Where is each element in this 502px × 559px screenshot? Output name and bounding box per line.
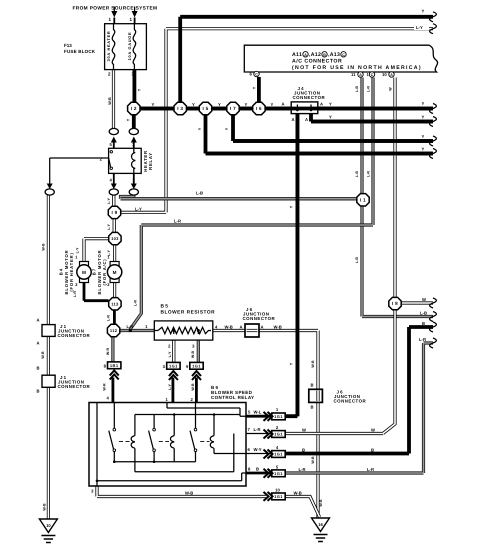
svg-text:10: 10: [382, 72, 387, 77]
svg-text:112: 112: [110, 328, 118, 333]
svg-text:,A12: ,A12: [309, 52, 321, 58]
svg-text:Y: Y: [329, 102, 332, 107]
svg-text:W-B: W-B: [311, 360, 315, 368]
svg-text:CONNECTOR: CONNECTOR: [58, 333, 91, 338]
svg-text:10: 10: [275, 488, 280, 493]
svg-text:W-B: W-B: [41, 243, 45, 251]
svg-text:HEATER: HEATER: [143, 150, 148, 172]
svg-text:Y: Y: [422, 101, 425, 106]
svg-text:A/C CONNECTOR: A/C CONNECTOR: [292, 59, 342, 65]
svg-text:CONNECTOR: CONNECTOR: [334, 399, 367, 404]
svg-text:W-B: W-B: [108, 97, 112, 105]
svg-text:A: A: [305, 117, 308, 122]
svg-text:W: W: [422, 297, 426, 302]
svg-text:W-B: W-B: [319, 499, 323, 507]
svg-text:16: 16: [318, 522, 323, 527]
svg-text:Y: Y: [192, 102, 195, 107]
svg-text:BLOWER MOTOR: BLOWER MOTOR: [97, 250, 102, 295]
svg-text:L-R: L-R: [299, 467, 306, 472]
svg-text:L-Y: L-Y: [76, 247, 80, 253]
svg-text:I 7: I 7: [230, 106, 236, 111]
svg-text:C: C: [371, 73, 374, 77]
svg-text:Y: Y: [329, 115, 332, 120]
svg-text:A: A: [359, 73, 362, 77]
svg-text:B: B: [422, 321, 425, 326]
svg-text:W-B: W-B: [191, 383, 195, 391]
svg-text:I 9: I 9: [111, 210, 117, 215]
svg-text:L-Y: L-Y: [135, 207, 142, 212]
svg-text:1G1: 1G1: [274, 471, 283, 476]
svg-text:L-Y: L-Y: [416, 25, 423, 30]
svg-text:Y: Y: [218, 102, 221, 107]
svg-text:I 2: I 2: [131, 106, 137, 111]
svg-text:L-R: L-R: [419, 337, 426, 342]
svg-text:113: 113: [111, 301, 119, 306]
svg-text:Y: Y: [152, 102, 155, 107]
svg-text:C: C: [255, 73, 258, 77]
svg-text:L-R: L-R: [367, 171, 371, 177]
svg-text:A: A: [261, 325, 264, 330]
svg-text:30A HEATER: 30A HEATER: [106, 31, 111, 62]
svg-text:B: B: [323, 53, 326, 57]
svg-text:103: 103: [111, 236, 119, 241]
svg-text:,A13: ,A13: [328, 52, 340, 58]
svg-text:B: B: [371, 448, 374, 453]
svg-text:C: C: [342, 53, 345, 57]
svg-text:L-Y: L-Y: [168, 384, 172, 390]
svg-text:A: A: [320, 102, 323, 107]
svg-text:L-R: L-R: [367, 467, 374, 472]
svg-text:B 4: B 4: [59, 268, 64, 275]
svg-text:I 8: I 8: [392, 301, 398, 306]
svg-text:L-Y: L-Y: [107, 224, 111, 230]
svg-text:A: A: [304, 53, 307, 57]
svg-text:I 1: I 1: [360, 197, 366, 202]
svg-text:L-Y: L-Y: [107, 198, 111, 204]
svg-text:L-R: L-R: [107, 315, 111, 321]
svg-text:Y: Y: [138, 88, 142, 91]
svg-text:A: A: [36, 341, 39, 346]
svg-text:L-R: L-R: [367, 86, 371, 92]
svg-text:B: B: [36, 389, 39, 394]
svg-text:I 5: I 5: [202, 106, 208, 111]
svg-text:L-B: L-B: [355, 171, 359, 177]
svg-text:Y: Y: [127, 118, 131, 121]
svg-text:1G1: 1G1: [274, 414, 283, 419]
svg-text:Y: Y: [253, 86, 257, 89]
svg-text:M: M: [82, 270, 86, 275]
svg-text:L-B: L-B: [355, 86, 359, 92]
svg-text:W-B: W-B: [311, 456, 315, 464]
svg-text:I 6: I 6: [256, 106, 262, 111]
svg-text:CONNECTOR: CONNECTOR: [293, 95, 326, 100]
svg-text:CONNECTOR: CONNECTOR: [243, 316, 276, 321]
svg-text:A: A: [282, 102, 285, 107]
svg-text:L-Y: L-Y: [168, 351, 172, 357]
svg-text:A: A: [390, 73, 393, 77]
svg-text:Y: Y: [289, 362, 293, 365]
svg-text:A: A: [36, 318, 39, 323]
svg-text:L-R: L-R: [134, 300, 138, 306]
svg-text:1B1: 1B1: [110, 363, 119, 368]
svg-text:B: B: [310, 383, 313, 388]
svg-text:W-B: W-B: [294, 491, 302, 496]
svg-text:1G1: 1G1: [169, 364, 178, 369]
svg-text:W-B: W-B: [225, 325, 233, 330]
svg-text:FUSE BLOCK: FUSE BLOCK: [64, 49, 96, 54]
svg-text:Y: Y: [289, 205, 293, 208]
svg-text:1G1: 1G1: [192, 364, 201, 369]
svg-text:Y: Y: [198, 127, 202, 130]
svg-text:11: 11: [351, 72, 356, 77]
svg-text:1G1: 1G1: [274, 432, 283, 437]
svg-text:L-R: L-R: [254, 427, 261, 432]
svg-text:B: B: [302, 448, 305, 453]
svg-text:W-B: W-B: [43, 503, 47, 511]
svg-text:10: 10: [46, 523, 51, 528]
svg-text:CONNECTOR: CONNECTOR: [58, 384, 91, 389]
svg-text:1G1: 1G1: [274, 494, 283, 499]
svg-text:(NOT FOR USE IN NORTH AMERICA): (NOT FOR USE IN NORTH AMERICA): [292, 65, 422, 71]
svg-text:A: A: [240, 325, 243, 330]
svg-text:Y: Y: [422, 115, 425, 120]
svg-text:BLOWER RESISTOR: BLOWER RESISTOR: [161, 310, 216, 316]
svg-text:Y: Y: [422, 134, 425, 139]
svg-text:RELAY: RELAY: [148, 152, 153, 170]
svg-text:CONTROL RELAY: CONTROL RELAY: [211, 395, 254, 400]
svg-text:W-R: W-R: [103, 383, 107, 391]
svg-text:B 7: B 7: [92, 268, 97, 275]
svg-text:B 5: B 5: [161, 304, 169, 310]
svg-text:W-B: W-B: [185, 491, 193, 496]
svg-text:W-L: W-L: [254, 410, 262, 415]
svg-text:B: B: [310, 405, 313, 410]
svg-text:Y: Y: [422, 147, 425, 152]
svg-text:B: B: [256, 467, 259, 472]
svg-text:Y: Y: [225, 127, 229, 130]
svg-text:I 3: I 3: [177, 106, 183, 111]
svg-text:B: B: [36, 366, 39, 371]
svg-text:L-B: L-B: [355, 257, 359, 263]
svg-text:F13: F13: [64, 43, 72, 48]
svg-text:W: W: [302, 428, 306, 433]
svg-text:FROM POWER SOURCE SYSTEM: FROM POWER SOURCE SYSTEM: [73, 6, 158, 12]
svg-text:W-Y: W-Y: [254, 447, 262, 452]
svg-text:BLOWER MOTOR: BLOWER MOTOR: [64, 250, 69, 295]
svg-text:W-R: W-R: [106, 348, 110, 356]
svg-text:W-B: W-B: [41, 351, 45, 359]
svg-text:A: A: [292, 117, 295, 122]
svg-text:W: W: [371, 428, 375, 433]
svg-text:1G1: 1G1: [274, 452, 283, 457]
svg-text:W: W: [389, 87, 393, 91]
svg-text:L-R: L-R: [127, 324, 134, 329]
svg-text:M: M: [113, 270, 117, 275]
svg-text:L-B: L-B: [420, 311, 427, 316]
svg-text:Y: Y: [245, 102, 248, 107]
svg-text:Y: Y: [271, 102, 274, 107]
svg-text:L-B: L-B: [196, 191, 203, 196]
svg-text:(FOR HEATER): (FOR HEATER): [69, 252, 74, 291]
svg-text:10A GAUGE: 10A GAUGE: [127, 32, 132, 61]
svg-text:W-B: W-B: [191, 351, 195, 359]
svg-text:W-B: W-B: [274, 325, 282, 330]
svg-text:A11: A11: [292, 52, 302, 58]
svg-text:L-R: L-R: [174, 219, 181, 224]
svg-text:Y: Y: [422, 9, 425, 14]
